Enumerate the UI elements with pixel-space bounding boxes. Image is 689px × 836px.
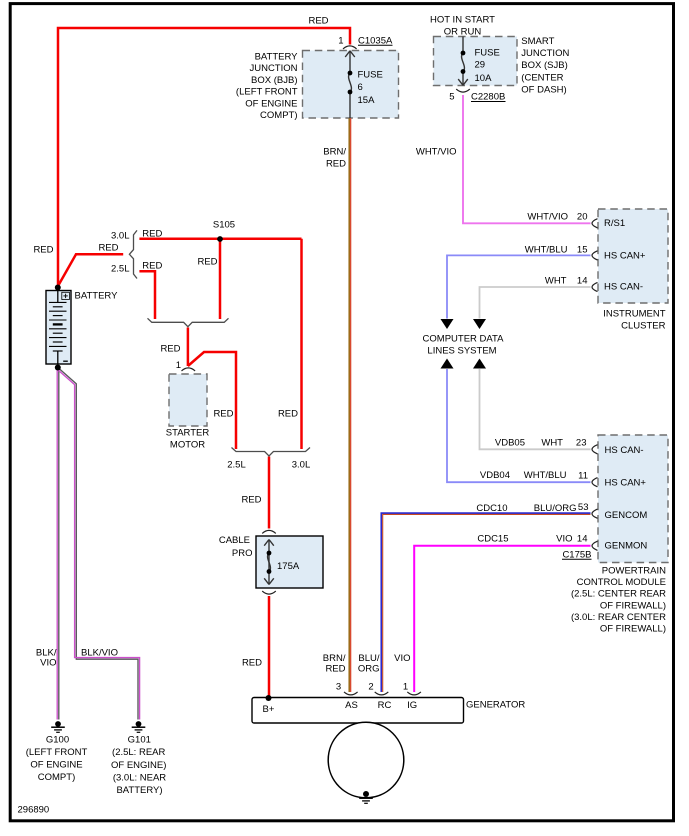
svg-text:OF ENGINE): OF ENGINE) xyxy=(111,760,166,771)
svg-text:RED: RED xyxy=(33,245,53,256)
svg-text:(CENTER: (CENTER xyxy=(521,72,563,83)
svg-text:VDB04: VDB04 xyxy=(480,470,510,481)
svg-text:IG: IG xyxy=(407,700,417,711)
svg-text:JUNCTION: JUNCTION xyxy=(521,48,569,59)
svg-text:BATTERY: BATTERY xyxy=(75,291,119,302)
svg-text:GENMON: GENMON xyxy=(605,541,648,552)
svg-text:(2.5L: REAR: (2.5L: REAR xyxy=(112,747,165,758)
svg-text:5: 5 xyxy=(449,92,454,103)
svg-text:1: 1 xyxy=(403,682,408,693)
svg-text:3: 3 xyxy=(336,682,341,693)
svg-text:B+: B+ xyxy=(263,704,275,715)
svg-text:FUSE: FUSE xyxy=(358,70,383,81)
svg-text:HS CAN-: HS CAN- xyxy=(605,445,644,456)
svg-text:2.5L: 2.5L xyxy=(111,264,130,275)
svg-text:CONTROL MODULE: CONTROL MODULE xyxy=(577,577,666,588)
svg-text:VDB05: VDB05 xyxy=(495,438,525,449)
svg-text:WHT/VIO: WHT/VIO xyxy=(527,212,568,223)
svg-text:(LEFT FRONT: (LEFT FRONT xyxy=(26,747,88,758)
svg-text:MOTOR: MOTOR xyxy=(170,440,205,451)
svg-text:RED: RED xyxy=(242,658,262,669)
svg-text:GENCOM: GENCOM xyxy=(605,510,648,521)
svg-text:OF DASH): OF DASH) xyxy=(521,85,566,96)
svg-text:RED: RED xyxy=(241,495,261,506)
svg-text:14: 14 xyxy=(577,534,588,545)
svg-text:29: 29 xyxy=(475,60,486,71)
svg-text:HS CAN+: HS CAN+ xyxy=(604,251,646,262)
svg-text:RED: RED xyxy=(278,409,298,420)
svg-text:175A: 175A xyxy=(277,561,300,572)
svg-text:WHT: WHT xyxy=(545,276,567,287)
svg-text:2: 2 xyxy=(368,682,373,693)
svg-text:14: 14 xyxy=(577,276,588,287)
svg-text:BLK/VIO: BLK/VIO xyxy=(81,648,118,659)
svg-text:10A: 10A xyxy=(475,73,493,84)
svg-text:GENERATOR: GENERATOR xyxy=(466,699,525,710)
svg-text:WHT: WHT xyxy=(541,438,563,449)
svg-text:23: 23 xyxy=(576,438,587,449)
svg-text:296890: 296890 xyxy=(18,805,50,816)
svg-text:BATTERY: BATTERY xyxy=(255,52,299,63)
svg-text:OF FIREWALL): OF FIREWALL) xyxy=(600,624,666,635)
svg-text:HS CAN-: HS CAN- xyxy=(604,282,643,293)
svg-text:RED: RED xyxy=(326,159,346,170)
svg-text:VIO: VIO xyxy=(394,653,410,664)
svg-text:COMPUTER DATA: COMPUTER DATA xyxy=(423,333,505,344)
svg-text:HS CAN+: HS CAN+ xyxy=(605,478,647,489)
svg-text:RC: RC xyxy=(378,700,392,711)
svg-text:G101: G101 xyxy=(128,734,151,745)
svg-text:COMPT): COMPT) xyxy=(38,772,75,783)
svg-text:RED: RED xyxy=(213,409,233,420)
svg-text:COMPT): COMPT) xyxy=(260,110,297,121)
svg-text:HOT IN START: HOT IN START xyxy=(430,15,495,26)
svg-text:LINES SYSTEM: LINES SYSTEM xyxy=(427,346,496,357)
svg-text:R/S1: R/S1 xyxy=(604,218,625,229)
svg-text:53: 53 xyxy=(578,502,589,513)
svg-text:FUSE: FUSE xyxy=(475,48,500,59)
svg-text:(3.0L: REAR CENTER: (3.0L: REAR CENTER xyxy=(571,612,666,623)
svg-text:RED: RED xyxy=(325,663,345,674)
svg-text:VIO: VIO xyxy=(556,533,572,544)
svg-text:(LEFT FRONT: (LEFT FRONT xyxy=(236,87,298,98)
svg-text:BRN/: BRN/ xyxy=(323,147,346,158)
svg-text:CABLE: CABLE xyxy=(219,535,250,546)
svg-text:CDC10: CDC10 xyxy=(476,503,507,514)
svg-text:WHT/VIO: WHT/VIO xyxy=(416,147,457,158)
svg-text:OF FIREWALL): OF FIREWALL) xyxy=(600,600,666,611)
svg-text:3.0L: 3.0L xyxy=(292,460,311,471)
svg-text:WHT/BLU: WHT/BLU xyxy=(524,470,567,481)
svg-text:S105: S105 xyxy=(213,220,235,231)
svg-text:RED: RED xyxy=(197,257,217,268)
svg-text:15A: 15A xyxy=(358,95,376,106)
svg-text:JUNCTION: JUNCTION xyxy=(249,63,297,74)
svg-text:G100: G100 xyxy=(46,734,69,745)
svg-text:PRO: PRO xyxy=(232,548,253,559)
svg-text:1: 1 xyxy=(176,360,181,371)
svg-text:1: 1 xyxy=(338,36,343,47)
svg-text:11: 11 xyxy=(578,471,588,482)
svg-text:STARTER: STARTER xyxy=(166,428,210,439)
svg-text:SMART: SMART xyxy=(521,36,554,47)
svg-text:RED: RED xyxy=(308,16,328,27)
svg-text:AS: AS xyxy=(345,700,358,711)
svg-text:OR RUN: OR RUN xyxy=(444,27,482,38)
svg-text:OF ENGINE: OF ENGINE xyxy=(30,760,82,771)
svg-text:RED: RED xyxy=(142,228,162,239)
svg-text:20: 20 xyxy=(577,212,588,223)
svg-text:INSTRUMENT: INSTRUMENT xyxy=(603,308,665,319)
svg-text:POWERTRAIN: POWERTRAIN xyxy=(602,566,666,577)
svg-text:CLUSTER: CLUSTER xyxy=(621,320,665,331)
svg-text:2.5L: 2.5L xyxy=(227,460,246,471)
svg-text:RED: RED xyxy=(142,260,162,271)
svg-text:6: 6 xyxy=(358,82,363,93)
svg-text:RED: RED xyxy=(160,344,180,355)
svg-text:VIO: VIO xyxy=(40,658,56,669)
svg-text:OF ENGINE: OF ENGINE xyxy=(245,98,297,109)
svg-text:BOX (SJB): BOX (SJB) xyxy=(521,60,567,71)
svg-text:BOX (BJB): BOX (BJB) xyxy=(251,75,297,86)
svg-text:RED: RED xyxy=(98,243,118,254)
svg-text:CDC15: CDC15 xyxy=(477,533,508,544)
svg-text:(2.5L: CENTER REAR: (2.5L: CENTER REAR xyxy=(571,589,666,600)
svg-text:15: 15 xyxy=(577,244,588,255)
svg-text:BATTERY): BATTERY) xyxy=(116,785,162,796)
svg-text:WHT/BLU: WHT/BLU xyxy=(525,244,568,255)
svg-text:3.0L: 3.0L xyxy=(111,231,130,242)
svg-text:BLU/ORG: BLU/ORG xyxy=(534,503,577,514)
svg-text:ORG: ORG xyxy=(358,663,380,674)
svg-text:(3.0L: NEAR: (3.0L: NEAR xyxy=(113,772,166,783)
